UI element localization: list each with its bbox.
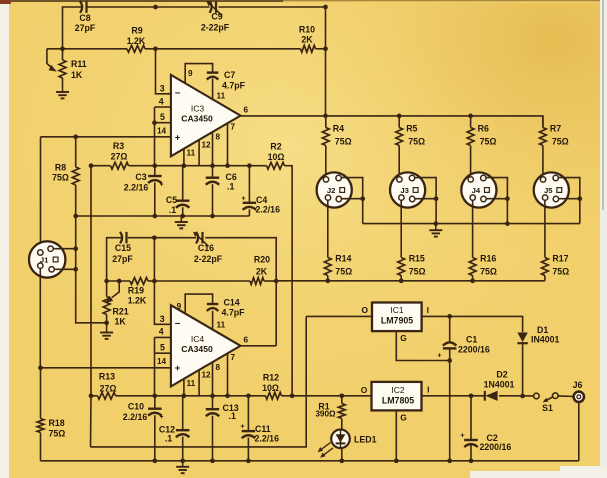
diode D1 bbox=[517, 333, 527, 397]
svg-text:75Ω: 75Ω bbox=[480, 267, 497, 277]
svg-text:S1: S1 bbox=[542, 403, 553, 413]
wire output rail IC3 bbox=[241, 116, 543, 128]
svg-text:1K: 1K bbox=[71, 70, 83, 80]
svg-text:1K: 1K bbox=[115, 316, 127, 326]
label R16 bbox=[480, 254, 497, 277]
wire R17 branch bbox=[544, 201, 546, 281]
label R1 bbox=[315, 402, 336, 419]
resistor R17 bbox=[542, 258, 549, 276]
label D2 bbox=[484, 370, 515, 390]
svg-text:9: 9 bbox=[177, 302, 182, 311]
svg-text:+: + bbox=[241, 196, 245, 203]
svg-text:1.2K: 1.2K bbox=[128, 295, 147, 305]
capacitor C2 bbox=[464, 440, 478, 447]
svg-text:I: I bbox=[427, 384, 429, 394]
resistor R2 bbox=[267, 162, 285, 169]
svg-text:+: + bbox=[159, 182, 163, 189]
wire C13 branch bbox=[212, 396, 214, 461]
resistor R16 bbox=[469, 258, 476, 276]
wire supply rail IC4 (R13/R12 row) bbox=[91, 395, 372, 397]
svg-text:11: 11 bbox=[187, 149, 196, 158]
svg-text:5: 5 bbox=[160, 112, 165, 122]
svg-text:27Ω: 27Ω bbox=[100, 384, 117, 394]
svg-text:LM7805: LM7805 bbox=[382, 396, 414, 406]
pin 8 label bbox=[216, 133, 221, 142]
svg-text:R20: R20 bbox=[254, 255, 270, 265]
wire pin14 row IC4 bbox=[38, 365, 171, 370]
label C10 bbox=[123, 402, 164, 423]
svg-text:2K: 2K bbox=[301, 35, 313, 45]
resistor R9 bbox=[127, 45, 145, 52]
capacitor C10 bbox=[148, 409, 162, 416]
svg-text:75Ω: 75Ω bbox=[408, 137, 425, 147]
svg-text:2K: 2K bbox=[256, 267, 268, 277]
resistor R13 bbox=[98, 392, 116, 399]
pin 5 label IC4 bbox=[160, 342, 165, 352]
wire R15 branch bbox=[400, 201, 402, 281]
svg-text:8: 8 bbox=[216, 133, 221, 142]
wire R21 wiper bbox=[105, 279, 121, 303]
label C5 bbox=[166, 195, 177, 215]
svg-text:IC4: IC4 bbox=[191, 334, 205, 344]
pin 7 label bbox=[231, 123, 236, 132]
svg-text:75Ω: 75Ω bbox=[52, 173, 69, 183]
wire R8 branch bbox=[75, 137, 77, 216]
svg-text:R16: R16 bbox=[480, 254, 496, 264]
resistor R1 bbox=[338, 404, 345, 419]
svg-text:C8: C8 bbox=[79, 13, 90, 23]
svg-text:R13: R13 bbox=[99, 372, 115, 382]
svg-text:J3: J3 bbox=[400, 186, 409, 195]
connector J1 bbox=[29, 241, 65, 277]
svg-text:.1: .1 bbox=[165, 433, 172, 443]
svg-text:J1: J1 bbox=[40, 256, 49, 265]
svg-text:7: 7 bbox=[231, 123, 236, 132]
label C7 bbox=[222, 70, 246, 91]
label R6 bbox=[478, 124, 497, 147]
svg-text:+: + bbox=[460, 431, 465, 440]
label C8 bbox=[75, 13, 96, 33]
pin 8 label IC4 bbox=[216, 363, 221, 372]
wire minus5 rail bbox=[91, 316, 307, 447]
svg-text:+: + bbox=[175, 133, 181, 144]
label R13 bbox=[99, 372, 116, 394]
connector J3 bbox=[390, 172, 425, 207]
label R4 bbox=[333, 124, 352, 147]
capacitor C4 bbox=[243, 203, 256, 210]
label IC2 I bbox=[427, 384, 429, 394]
wire C3 branch bbox=[154, 166, 156, 216]
svg-text:O: O bbox=[361, 385, 368, 395]
label C4 bbox=[241, 195, 280, 215]
svg-text:J2: J2 bbox=[327, 186, 336, 195]
opamp IC4 minus plus bbox=[175, 319, 181, 374]
wire C1 branch bbox=[449, 316, 451, 460]
resistor R18 bbox=[37, 419, 44, 433]
svg-text:IC3: IC3 bbox=[191, 104, 205, 114]
wire pin4-5 tie bbox=[155, 107, 171, 166]
svg-text:R2: R2 bbox=[270, 142, 281, 152]
pin 14 label IC4 bbox=[157, 357, 167, 366]
resistor R3 bbox=[111, 162, 129, 169]
label R9 bbox=[127, 26, 146, 47]
label J6 bbox=[573, 380, 583, 390]
label R19 bbox=[128, 285, 147, 305]
label R10 bbox=[299, 25, 315, 45]
ground below R11 bbox=[56, 86, 69, 98]
potentiometer R21 bbox=[103, 297, 110, 315]
capacitor C12 bbox=[176, 430, 190, 437]
svg-text:27pF: 27pF bbox=[75, 23, 96, 33]
wire bottom ground rail bbox=[41, 460, 579, 462]
connector J4 bbox=[461, 172, 496, 207]
svg-text:8: 8 bbox=[216, 363, 221, 372]
op-amp IC4 bbox=[171, 305, 241, 386]
wire C4 branch bbox=[248, 166, 250, 216]
svg-text:10Ω: 10Ω bbox=[268, 152, 285, 162]
capacitor C13 bbox=[206, 409, 219, 416]
svg-text:75Ω: 75Ω bbox=[480, 137, 497, 147]
svg-text:75Ω: 75Ω bbox=[335, 137, 352, 147]
ground below R21 bbox=[100, 320, 113, 338]
svg-text:G: G bbox=[400, 333, 407, 343]
wire R6 branch bbox=[470, 116, 472, 176]
label C2 bbox=[460, 431, 511, 452]
resistor R5 bbox=[396, 128, 403, 146]
wire pin9-C14-pin11 IC4 bbox=[185, 294, 212, 330]
opamp IC3 minus plus bbox=[175, 88, 181, 143]
svg-text:27pF: 27pF bbox=[112, 254, 133, 264]
diode D2 bbox=[485, 391, 498, 401]
wire IC2 ground pin bbox=[395, 410, 397, 460]
wire shield bus bbox=[363, 223, 580, 225]
svg-text:6: 6 bbox=[244, 336, 249, 345]
label IC1 O bbox=[362, 305, 369, 315]
pin 4 label bbox=[159, 96, 164, 106]
svg-text:11: 11 bbox=[217, 92, 226, 101]
jack J6 bbox=[574, 392, 584, 402]
label IC1 G bbox=[400, 333, 407, 343]
label C16 bbox=[194, 243, 223, 264]
pin 11 label top bbox=[217, 92, 226, 101]
svg-text:75Ω: 75Ω bbox=[552, 267, 569, 277]
svg-text:75Ω: 75Ω bbox=[49, 429, 66, 439]
label R15 bbox=[409, 254, 426, 277]
svg-text:2.2/16: 2.2/16 bbox=[123, 412, 148, 422]
svg-text:IC2: IC2 bbox=[391, 385, 405, 395]
svg-text:C1: C1 bbox=[466, 335, 477, 345]
wire S1 to J6 bbox=[558, 395, 574, 398]
label C9 bbox=[201, 12, 230, 33]
label IC1 I bbox=[427, 305, 429, 315]
svg-text:C5: C5 bbox=[166, 195, 177, 205]
svg-text:10Ω: 10Ω bbox=[262, 383, 279, 393]
svg-text:4: 4 bbox=[159, 96, 164, 106]
wire R5 branch bbox=[398, 116, 400, 176]
svg-text:12: 12 bbox=[202, 140, 212, 149]
resistor R20 bbox=[250, 278, 264, 285]
wire IC1 ground pin bbox=[396, 331, 449, 360]
potentiometer R11 bbox=[59, 60, 66, 78]
label R12 bbox=[262, 373, 279, 394]
svg-text:C11: C11 bbox=[255, 424, 271, 434]
capacitor C15 bbox=[120, 232, 127, 244]
wire J1 shield taps bbox=[53, 246, 78, 271]
wire C15/C16 row bbox=[107, 238, 277, 346]
svg-text:14: 14 bbox=[157, 357, 167, 366]
svg-text:O: O bbox=[362, 305, 369, 315]
wire pin9-C7-pin11 bbox=[185, 64, 212, 100]
svg-text:C14: C14 bbox=[224, 298, 240, 308]
wire R4 branch bbox=[325, 116, 327, 176]
wire pin8 IC4 bbox=[212, 362, 214, 396]
wire R11 wiper bbox=[47, 49, 57, 72]
svg-text:I: I bbox=[427, 305, 429, 315]
wire top feedback C8/C9 row bbox=[63, 7, 326, 49]
svg-text:2200/16: 2200/16 bbox=[480, 442, 512, 452]
pin 12 label IC4 bbox=[202, 371, 212, 380]
label R17 bbox=[552, 254, 569, 277]
connector J2 bbox=[317, 172, 352, 207]
svg-text:75Ω: 75Ω bbox=[335, 267, 352, 277]
svg-text:IN4001: IN4001 bbox=[531, 335, 559, 345]
wire J6 down bbox=[578, 402, 580, 461]
wire C5 branch bbox=[182, 166, 184, 216]
svg-text:R17: R17 bbox=[552, 254, 568, 264]
label R21 bbox=[113, 306, 129, 326]
wire pin8 bbox=[212, 132, 214, 166]
wire pin7 bbox=[227, 123, 229, 166]
pin 11 label bottom bbox=[187, 149, 196, 158]
svg-text:4.7pF: 4.7pF bbox=[222, 307, 246, 317]
capacitor C11 bbox=[242, 431, 256, 438]
pin 14 label bbox=[157, 127, 167, 136]
label C11 bbox=[240, 424, 279, 444]
wire J3 loop bbox=[415, 178, 439, 224]
capacitor C16 variable bbox=[193, 232, 209, 247]
wire J4 loop bbox=[486, 178, 510, 224]
svg-text:R5: R5 bbox=[406, 124, 417, 134]
pin 3 label IC4 bbox=[160, 314, 165, 324]
svg-text:CA3450: CA3450 bbox=[181, 344, 213, 354]
wire R1 branch bbox=[341, 396, 343, 430]
wire C2 branch bbox=[470, 396, 472, 461]
svg-text:R21: R21 bbox=[113, 306, 129, 316]
svg-text:4: 4 bbox=[159, 327, 164, 337]
wire pin7 IC4 bbox=[227, 353, 229, 395]
svg-text:R19: R19 bbox=[128, 285, 144, 295]
pin 3 label bbox=[160, 84, 165, 94]
svg-text:4.7pF: 4.7pF bbox=[222, 81, 246, 91]
svg-text:C3: C3 bbox=[135, 172, 146, 182]
wire pin14 row IC3 bbox=[41, 136, 171, 138]
capacitor C7 bbox=[207, 73, 219, 80]
svg-text:D1: D1 bbox=[537, 325, 548, 335]
svg-text:R4: R4 bbox=[333, 124, 344, 134]
wire C10 branch bbox=[154, 396, 156, 461]
svg-text:R7: R7 bbox=[550, 124, 561, 134]
wire IC4 pin4-5 tie bbox=[155, 337, 171, 395]
label C1 bbox=[437, 335, 490, 360]
wire R3/R13 common vertical bbox=[90, 166, 93, 447]
svg-text:R11: R11 bbox=[71, 59, 87, 69]
svg-text:3: 3 bbox=[160, 84, 165, 94]
svg-text:D2: D2 bbox=[496, 370, 507, 380]
label IC2 G bbox=[400, 412, 407, 422]
resistor R15 bbox=[398, 258, 405, 276]
svg-text:C15: C15 bbox=[115, 243, 131, 253]
svg-text:J6: J6 bbox=[573, 380, 583, 390]
wire J2 loop bbox=[341, 178, 365, 224]
capacitor C6 bbox=[206, 178, 219, 185]
wire R9/R10 rail pin3 bbox=[47, 49, 326, 94]
wire output rail IC4 bbox=[241, 345, 277, 347]
svg-text:2-22pF: 2-22pF bbox=[194, 254, 223, 264]
LED1 arrows bbox=[318, 443, 333, 458]
ground on shield bus bbox=[429, 221, 509, 236]
svg-text:2200/16: 2200/16 bbox=[458, 345, 490, 355]
svg-text:5: 5 bbox=[160, 342, 165, 352]
label R2 bbox=[268, 142, 285, 162]
svg-text:12: 12 bbox=[202, 371, 212, 380]
svg-text:6: 6 bbox=[244, 106, 249, 115]
label C13 bbox=[223, 403, 239, 421]
svg-text:−: − bbox=[175, 88, 181, 99]
svg-text:J4: J4 bbox=[472, 186, 481, 195]
label IC2 O bbox=[361, 385, 368, 395]
wire pin12 bbox=[198, 140, 200, 166]
capacitor C3 bbox=[148, 176, 162, 183]
label R11 bbox=[71, 59, 87, 80]
wire C12 branch bbox=[182, 396, 184, 461]
wire pin11 bottom IC4 bbox=[183, 379, 185, 396]
svg-text:3: 3 bbox=[160, 314, 165, 324]
wire R4 feedback vertical bbox=[325, 49, 327, 116]
label R14 bbox=[335, 254, 352, 277]
svg-text:LM7905: LM7905 bbox=[381, 316, 413, 326]
wire C11 branch bbox=[247, 396, 249, 461]
svg-text:LED1: LED1 bbox=[354, 435, 377, 445]
svg-text:R8: R8 bbox=[55, 162, 66, 172]
svg-text:+: + bbox=[159, 414, 163, 421]
label R18 bbox=[49, 418, 66, 439]
wire R7 branch bbox=[542, 116, 544, 176]
svg-text:C10: C10 bbox=[128, 402, 144, 412]
pin 9 label bbox=[188, 69, 193, 78]
capacitor C5 bbox=[176, 201, 190, 208]
wire R19/R20 rail bbox=[107, 280, 545, 282]
wire R18 branch bbox=[40, 368, 42, 461]
wire IC1 output bbox=[306, 315, 372, 317]
wire J5 loop bbox=[559, 178, 583, 224]
label D1 bbox=[531, 325, 559, 345]
wire J1 signal upper bbox=[40, 137, 42, 250]
pin 6 label IC4 bbox=[244, 336, 249, 345]
pin 9 label IC4 bbox=[177, 302, 182, 311]
wire R11 branch bbox=[62, 49, 64, 86]
wire pin12 IC4 bbox=[198, 370, 200, 396]
label R3 bbox=[111, 141, 128, 161]
svg-text:C4: C4 bbox=[256, 195, 267, 205]
svg-text:11: 11 bbox=[187, 379, 196, 388]
svg-text:2.2/16: 2.2/16 bbox=[255, 433, 280, 443]
svg-text:14: 14 bbox=[157, 127, 167, 136]
svg-text:J5: J5 bbox=[544, 186, 553, 195]
svg-text:.1: .1 bbox=[229, 411, 236, 421]
label C3 bbox=[124, 172, 164, 192]
svg-text:G: G bbox=[400, 412, 407, 422]
svg-text:CA3450: CA3450 bbox=[181, 114, 213, 124]
svg-text:R18: R18 bbox=[49, 418, 65, 428]
svg-text:2.2/16: 2.2/16 bbox=[124, 182, 149, 192]
svg-text:+: + bbox=[437, 351, 442, 360]
svg-text:R10: R10 bbox=[299, 25, 315, 35]
svg-text:C9: C9 bbox=[211, 12, 222, 22]
svg-text:1.2K: 1.2K bbox=[127, 36, 146, 46]
svg-text:.1: .1 bbox=[227, 182, 234, 192]
svg-text:R15: R15 bbox=[409, 254, 425, 264]
resistor R12 bbox=[266, 392, 282, 399]
resistor R7 bbox=[540, 128, 547, 146]
regulator IC2 bbox=[372, 382, 422, 411]
label R20 bbox=[254, 255, 270, 277]
svg-text:−: − bbox=[175, 319, 181, 330]
op-amp IC3 bbox=[171, 75, 241, 156]
svg-text:+: + bbox=[175, 363, 181, 374]
svg-text:.1: .1 bbox=[169, 205, 176, 215]
pin 12 label bbox=[202, 140, 212, 149]
pin 6 label bbox=[244, 106, 249, 115]
pin 7 label IC4 bbox=[231, 353, 236, 362]
wire J1 shield vertical bbox=[76, 216, 107, 323]
svg-text:C7: C7 bbox=[224, 70, 235, 80]
resistor R6 bbox=[467, 128, 474, 146]
resistor R14 bbox=[324, 258, 331, 276]
wire supply rail IC3 (R3/R2 row) bbox=[91, 166, 292, 396]
resistor R4 bbox=[322, 128, 329, 146]
label C6 bbox=[226, 172, 237, 191]
wire IC1 input bbox=[422, 316, 523, 332]
ground below C12 rail bbox=[176, 461, 189, 473]
wire J1 signal lower bbox=[39, 268, 41, 367]
pin 11 label top IC4 bbox=[217, 321, 226, 330]
capacitor C8 bbox=[80, 1, 87, 13]
svg-text:R12: R12 bbox=[263, 373, 279, 383]
svg-text:2.2/16: 2.2/16 bbox=[256, 205, 281, 215]
wire ground rail IC3 caps bbox=[76, 215, 250, 217]
capacitor C9 variable bbox=[206, 1, 222, 16]
LED1 bbox=[331, 430, 350, 461]
svg-text:IC1: IC1 bbox=[390, 305, 404, 315]
wire R14 branch bbox=[327, 201, 329, 281]
svg-text:9: 9 bbox=[188, 69, 193, 78]
svg-text:2-22pF: 2-22pF bbox=[201, 23, 230, 33]
svg-text:75Ω: 75Ω bbox=[409, 267, 426, 277]
svg-text:75Ω: 75Ω bbox=[552, 137, 569, 147]
label LED1 bbox=[354, 435, 377, 445]
resistor R8 bbox=[72, 167, 79, 185]
label R5 bbox=[406, 124, 425, 147]
svg-text:R6: R6 bbox=[478, 124, 489, 134]
svg-text:R14: R14 bbox=[335, 254, 351, 264]
svg-text:27Ω: 27Ω bbox=[111, 151, 128, 161]
svg-text:1N4001: 1N4001 bbox=[484, 380, 515, 390]
resistor R10 bbox=[301, 45, 316, 52]
connector J5 bbox=[534, 172, 569, 207]
svg-text:C16: C16 bbox=[198, 243, 214, 253]
label C12 bbox=[159, 425, 175, 444]
label R8 bbox=[52, 162, 69, 182]
